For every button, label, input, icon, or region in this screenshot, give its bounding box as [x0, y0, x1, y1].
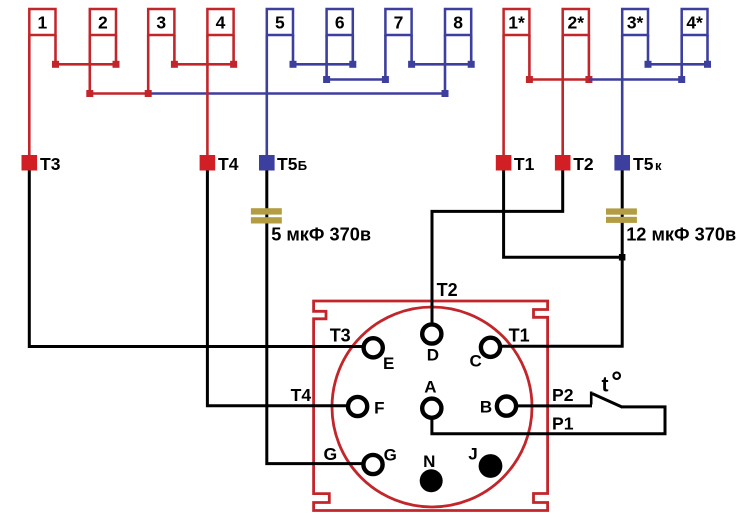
svg-text:T3: T3 [40, 154, 61, 174]
wire box4 left to T4 [206, 35, 209, 155]
wire box5 right leg [292, 35, 295, 64]
svg-text:P1: P1 [552, 414, 574, 434]
wire jumper 1*R-2*R [529, 78, 589, 81]
svg-text:N: N [423, 452, 435, 471]
wire box4* left leg [680, 35, 683, 80]
terminal box 8 [445, 9, 471, 35]
svg-text:3*: 3* [627, 13, 644, 33]
svg-text:1*: 1* [508, 13, 525, 33]
node 6L junction [323, 76, 330, 83]
svg-text:t: t [602, 373, 609, 396]
wire box8 left leg [444, 35, 447, 94]
svg-text:T5: T5 [633, 154, 654, 174]
node 3L junction [145, 90, 152, 97]
svg-text:P2: P2 [552, 385, 574, 405]
svg-text:6: 6 [335, 13, 345, 33]
thermal switch blade [592, 394, 622, 408]
svg-text:5 мкФ 370в: 5 мкФ 370в [271, 225, 371, 245]
connector circle [332, 307, 532, 507]
svg-text:C: C [469, 352, 481, 371]
svg-text:8: 8 [453, 13, 463, 33]
wire jumper 7R-8R [412, 63, 472, 66]
wire jumper 5R-6R [293, 63, 353, 66]
svg-text:T3: T3 [330, 326, 351, 346]
wire box7 right leg [410, 35, 413, 64]
thermal switch degree mark [613, 372, 620, 379]
svg-text:Б: Б [298, 158, 307, 173]
capacitor C2 12uF plates [606, 208, 637, 223]
terminal box 4* [682, 9, 708, 35]
pin E [364, 338, 383, 357]
wire box7 left leg [384, 35, 387, 80]
node 7R junction [408, 61, 415, 68]
wire black T5k through C2 down to pin C [499, 170, 622, 346]
wire box3 left leg [147, 35, 150, 94]
node 1R junction [52, 61, 59, 68]
wire blue main left section [148, 92, 445, 95]
pin D [422, 324, 441, 343]
svg-text:12 мкФ 370в: 12 мкФ 370в [626, 225, 736, 245]
pin C [481, 338, 500, 357]
wire black T2 to pin D [432, 170, 563, 325]
wire jumper 1R-2R [56, 63, 117, 66]
wire box2 left leg [89, 35, 92, 94]
node 4R junction [230, 61, 237, 68]
wire black pin B to switch [517, 404, 593, 407]
wire box1* right leg [528, 35, 531, 80]
svg-text:4*: 4* [686, 13, 703, 33]
svg-text:G: G [324, 444, 338, 464]
wire box3* left to T5k [621, 35, 624, 155]
svg-text:1: 1 [38, 13, 48, 33]
wire box3* right leg [647, 35, 650, 64]
svg-text:T4: T4 [291, 385, 312, 405]
wire black T1 to cap node [504, 170, 623, 257]
svg-text:T1: T1 [509, 326, 530, 346]
svg-text:2*: 2* [568, 13, 585, 33]
terminal box 1 [29, 9, 55, 35]
terminal box 7 [385, 9, 411, 35]
svg-text:7: 7 [394, 13, 404, 33]
capacitor C1 5uF plates [251, 208, 282, 223]
thermal switch t contact tick [590, 392, 593, 405]
node 5R junction [290, 61, 297, 68]
node 3R junction [171, 61, 178, 68]
wire box1* left to T1 [502, 35, 505, 155]
wire box8 right leg [470, 35, 473, 64]
terminal T4 [200, 154, 239, 174]
wire box5 left to T5b [265, 35, 268, 155]
node 3*R junction [645, 61, 652, 68]
pin F [348, 397, 367, 416]
wire black pin A P1 loop [432, 407, 665, 434]
node blue-4*L junction [678, 76, 685, 83]
svg-text:B: B [480, 398, 492, 417]
wire jumper 3R-4R [174, 63, 233, 66]
terminal box 6 [327, 9, 353, 35]
svg-text:4: 4 [216, 13, 226, 33]
svg-text:G: G [384, 445, 397, 464]
terminal box 1* [504, 9, 530, 35]
svg-text:T2: T2 [573, 154, 594, 174]
node 8R junction [468, 61, 475, 68]
terminal box 4 [207, 9, 233, 35]
wire box3 right leg [173, 35, 176, 64]
svg-text:к: к [655, 158, 662, 173]
wire black T4 to pin F [207, 170, 348, 406]
svg-text:T2: T2 [437, 280, 458, 300]
terminal T5k [614, 154, 662, 174]
svg-text:J: J [468, 445, 477, 464]
terminal T3 [22, 154, 61, 174]
pin J filled [479, 454, 503, 478]
svg-text:2: 2 [98, 13, 108, 33]
node 2*R junction [585, 76, 592, 83]
node 7L junction [382, 76, 389, 83]
svg-text:A: A [424, 378, 436, 397]
wire box4 right leg [232, 35, 235, 64]
pin N filled [420, 469, 443, 492]
terminal T5b [259, 154, 307, 174]
node 1*R junction [526, 76, 533, 83]
svg-text:F: F [374, 398, 384, 417]
node 6R junction [349, 61, 356, 68]
connector shell [314, 301, 548, 511]
terminal box 5 [267, 9, 293, 35]
pin B [497, 397, 516, 416]
wire box2* left to T2 [561, 35, 564, 155]
wire box6 left leg [325, 35, 328, 80]
svg-text:T1: T1 [514, 154, 535, 174]
wire box1 right leg [54, 35, 57, 64]
terminal box 2* [563, 9, 589, 35]
node 4*R junction [704, 61, 711, 68]
node 2R junction [113, 61, 120, 68]
terminal box 2 [90, 9, 116, 35]
wire jumper 3*R-4*R [648, 63, 708, 66]
svg-text:5: 5 [275, 13, 285, 33]
svg-text:T4: T4 [218, 154, 239, 174]
node 2L junction [86, 90, 93, 97]
node blue-8L junction [442, 90, 449, 97]
wire box4* right leg [706, 35, 709, 64]
wire black T3 to pin E [29, 170, 363, 347]
wire blue main right section [589, 78, 682, 81]
svg-text:3: 3 [156, 13, 166, 33]
wire black T5b through C1 to pin G [267, 170, 365, 464]
terminal box 3 [148, 9, 174, 35]
svg-text:D: D [427, 346, 439, 365]
node black capacitor junction [619, 254, 626, 261]
terminal T2 [555, 154, 594, 174]
wire box1 left to T3 [28, 35, 31, 155]
wire box6 right leg [351, 35, 354, 64]
terminal T1 [496, 154, 535, 174]
wire jumper 6L-7L [327, 78, 386, 81]
wire box2* right leg [588, 35, 591, 80]
wire box2 right leg [115, 35, 118, 64]
svg-text:T5: T5 [277, 154, 298, 174]
svg-text:E: E [383, 354, 394, 373]
pin G [363, 455, 382, 474]
terminal box 3* [622, 9, 648, 35]
wire jumper 2L-3L [90, 92, 148, 95]
pin A [422, 399, 441, 418]
